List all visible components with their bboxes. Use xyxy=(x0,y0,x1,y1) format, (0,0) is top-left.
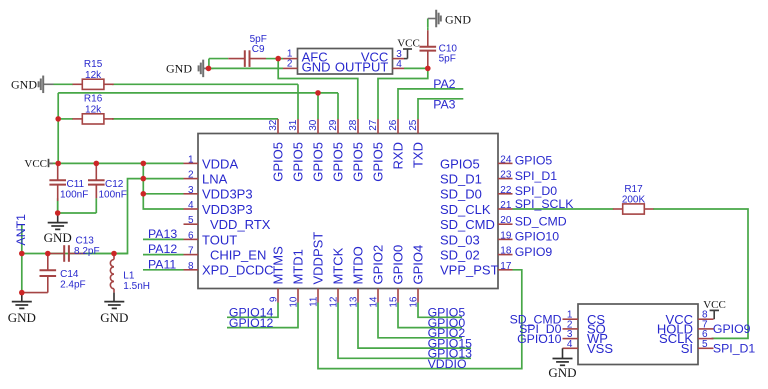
svg-text:GND: GND xyxy=(445,13,471,27)
wire PA12 to pin7 xyxy=(143,254,184,256)
svg-text:GPIO0: GPIO0 xyxy=(391,245,406,285)
svg-text:GND: GND xyxy=(166,62,192,76)
ground below antenna C14 xyxy=(21,293,23,302)
svg-text:PA13: PA13 xyxy=(148,227,177,241)
pin 2 LNA xyxy=(184,178,199,180)
resistor R17 xyxy=(613,208,623,210)
resistor R15 xyxy=(73,83,83,85)
svg-text:23: 23 xyxy=(500,170,512,181)
capacitor C10 xyxy=(427,27,429,30)
svg-text:GPIO4: GPIO4 xyxy=(411,245,426,285)
svg-text:VDDA: VDDA xyxy=(202,156,238,171)
pin 11 VDDPST bottom xyxy=(317,289,319,303)
svg-text:20: 20 xyxy=(500,215,512,226)
svg-text:GPIO9: GPIO9 xyxy=(713,322,751,336)
svg-text:GPIO9: GPIO9 xyxy=(515,245,553,259)
pin 27 GPIO5 top xyxy=(377,119,379,134)
svg-text:ANT1: ANT1 xyxy=(14,214,28,246)
svg-text:GND: GND xyxy=(548,365,576,380)
svg-text:SD_02: SD_02 xyxy=(440,248,480,263)
svg-text:2.4pF: 2.4pF xyxy=(60,280,86,291)
svg-text:GPIO10: GPIO10 xyxy=(517,332,562,346)
svg-text:PA2: PA2 xyxy=(433,77,455,91)
svg-text:GPIO5: GPIO5 xyxy=(371,142,386,182)
wire pin14 GPIO2 xyxy=(378,303,462,338)
svg-text:SD_CMD: SD_CMD xyxy=(440,217,495,232)
svg-text:4: 4 xyxy=(567,339,573,350)
pin 22 SD_D0 right xyxy=(498,193,513,195)
resistor R16 xyxy=(73,118,83,120)
svg-text:21: 21 xyxy=(500,200,512,211)
svg-text:GND: GND xyxy=(302,59,331,74)
wire R17 to flash SCLK xyxy=(653,209,748,338)
svg-text:SD_CLK: SD_CLK xyxy=(440,202,491,217)
svg-text:5: 5 xyxy=(702,339,708,350)
main IC U1 body xyxy=(198,134,498,289)
svg-text:5pF: 5pF xyxy=(439,54,456,65)
net label PA3 wire xyxy=(418,99,463,119)
svg-text:SD_CMD: SD_CMD xyxy=(515,214,567,228)
flash IC U2 body xyxy=(578,304,698,365)
svg-text:6: 6 xyxy=(188,230,194,241)
pin 21 SD_CLK right xyxy=(498,208,513,210)
pin 19 SD_03 right xyxy=(498,238,513,240)
svg-text:SPI_D1: SPI_D1 xyxy=(713,342,756,356)
svg-text:TOUT: TOUT xyxy=(202,232,237,247)
svg-text:SD_03: SD_03 xyxy=(440,232,480,247)
wire pin3 VDD3P3 xyxy=(143,193,183,195)
svg-text:MTMS: MTMS xyxy=(271,246,286,285)
svg-text:VDD3P3: VDD3P3 xyxy=(202,187,253,202)
pin 15 GPIO0 bottom xyxy=(397,289,399,303)
svg-text:OUTPUT: OUTPUT xyxy=(335,59,389,74)
svg-text:SPI_D1: SPI_D1 xyxy=(515,169,558,183)
svg-text:GPIO5: GPIO5 xyxy=(351,142,366,182)
net flag VCC at oscillator pin3 xyxy=(404,58,408,60)
pin 32 GPIO5 top xyxy=(277,119,279,134)
svg-text:SI: SI xyxy=(681,341,693,356)
svg-text:1: 1 xyxy=(188,154,194,165)
svg-text:22: 22 xyxy=(500,185,512,196)
wire pin13 GPIO15 xyxy=(358,303,471,349)
svg-text:VDD3P3: VDD3P3 xyxy=(202,202,253,217)
svg-text:GND: GND xyxy=(100,310,128,325)
svg-text:MTDO: MTDO xyxy=(351,246,366,284)
svg-text:R15: R15 xyxy=(84,59,103,70)
svg-text:GPIO5: GPIO5 xyxy=(311,142,326,182)
svg-text:GPIO5: GPIO5 xyxy=(291,142,306,182)
svg-text:GPIO5: GPIO5 xyxy=(331,142,346,182)
svg-text:TXD: TXD xyxy=(411,142,426,168)
capacitor C13 xyxy=(48,253,64,255)
pin 13 MTDO bottom xyxy=(357,289,359,303)
pin 14 GPIO2 bottom xyxy=(377,289,379,303)
svg-text:VSS: VSS xyxy=(587,341,613,356)
wire pin9 GPIO14 xyxy=(227,303,278,318)
pin 24 GPIO5 right xyxy=(498,162,513,164)
svg-text:VCC: VCC xyxy=(24,158,47,170)
pin 16 GPIO4 bottom xyxy=(417,289,419,303)
svg-text:GPIO10: GPIO10 xyxy=(515,230,560,244)
pin 17 VPP_PST right xyxy=(498,269,513,271)
oscillator box U3 xyxy=(298,49,393,75)
pin 26 RXD top xyxy=(397,119,399,134)
capacitor C11 xyxy=(57,162,59,164)
wire SPI_SCLK pin21 to R17 xyxy=(513,208,614,210)
svg-text:MTCK: MTCK xyxy=(331,247,346,284)
wire PA13 to pin6 xyxy=(143,238,184,240)
pin 1 VDDA xyxy=(184,162,199,164)
wire LNA pin2 to antenna xyxy=(114,179,184,254)
svg-text:LNA: LNA xyxy=(202,172,228,187)
flash pin 6 SCLK xyxy=(698,338,714,340)
pin 1 stub AFC xyxy=(283,58,298,60)
svg-text:RXD: RXD xyxy=(391,142,406,169)
svg-text:2: 2 xyxy=(188,170,194,181)
svg-text:30: 30 xyxy=(308,119,319,131)
pin 28 GPIO5 top xyxy=(357,119,359,134)
wire pin16 GPIO5 xyxy=(418,303,462,318)
svg-text:27: 27 xyxy=(368,119,379,131)
wire C11 bottom join xyxy=(57,198,59,213)
ground below L1 xyxy=(113,293,115,302)
svg-text:4: 4 xyxy=(188,200,194,211)
svg-text:SPI_SCLK: SPI_SCLK xyxy=(515,197,575,211)
wire vertical branch x58 xyxy=(57,93,59,163)
capacitor C14 xyxy=(47,253,49,255)
svg-text:PA3: PA3 xyxy=(433,97,455,111)
flash pin 1 CS xyxy=(563,318,579,320)
pin 3 stub VCC xyxy=(393,58,405,60)
svg-text:19: 19 xyxy=(500,230,512,241)
svg-text:28: 28 xyxy=(348,119,359,131)
svg-text:C14: C14 xyxy=(60,269,79,280)
wire antenna row xyxy=(22,253,128,255)
svg-text:GND: GND xyxy=(8,310,36,325)
svg-text:100nF: 100nF xyxy=(60,189,88,200)
ground at flash VSS xyxy=(562,348,564,358)
junction dots overlay xyxy=(315,90,321,96)
pin 8 XPD_DCDC xyxy=(184,269,199,271)
svg-text:XPD_DCDC: XPD_DCDC xyxy=(202,263,274,278)
svg-text:3: 3 xyxy=(188,185,194,196)
ground below C11/C12 xyxy=(57,213,59,223)
wire C10 top to GND flag xyxy=(428,18,436,20)
svg-text:SPI_D0: SPI_D0 xyxy=(515,184,558,198)
inductor L1 xyxy=(113,254,115,260)
svg-text:VDD_RTX: VDD_RTX xyxy=(210,217,271,232)
svg-text:200K: 200K xyxy=(622,195,646,206)
svg-text:R16: R16 xyxy=(84,94,103,105)
svg-text:CHIP_EN: CHIP_EN xyxy=(210,248,266,263)
pin 25 TXD top xyxy=(417,119,419,134)
svg-text:VPP_PST: VPP_PST xyxy=(440,263,499,278)
flash pin 2 SO xyxy=(563,328,579,330)
wire OUTPUT net to pin 27 xyxy=(378,68,428,119)
wire PA11 to pin8 xyxy=(143,269,184,271)
wire C9 left to gnd node xyxy=(208,59,210,69)
net flag GND at C9 xyxy=(204,67,208,69)
svg-text:4: 4 xyxy=(396,59,402,70)
pin 23 SD_D1 right xyxy=(498,178,513,180)
svg-text:GPIO2: GPIO2 xyxy=(371,245,386,285)
svg-text:12k: 12k xyxy=(85,104,102,115)
pin 4 VDD3P3 xyxy=(184,208,199,210)
svg-text:PA12: PA12 xyxy=(148,242,177,256)
svg-text:1.5nH: 1.5nH xyxy=(123,281,150,292)
pin 9 MTMS bottom xyxy=(277,289,279,303)
wire pins 29-30 to VCC branch xyxy=(58,92,338,94)
pin 31 GPIO5 top xyxy=(297,119,299,134)
wire R16 net to pin 32 xyxy=(112,118,278,120)
wire pin12 GPIO13 xyxy=(338,303,471,359)
pin 10 MTD1 bottom xyxy=(297,289,299,303)
svg-text:18: 18 xyxy=(500,246,512,257)
capacitor C9 xyxy=(209,58,228,60)
svg-text:L1: L1 xyxy=(123,271,135,282)
pin 2 stub GND xyxy=(283,67,298,69)
wire VCC row to pin 1 xyxy=(50,162,184,164)
pin 30 GPIO5 top xyxy=(317,119,319,134)
svg-text:7: 7 xyxy=(188,246,194,257)
pin 6 TOUT xyxy=(184,238,199,240)
capacitor C12 xyxy=(95,162,97,164)
svg-text:26: 26 xyxy=(388,119,399,131)
wire C9 right to pin1 xyxy=(278,58,283,60)
svg-text:32: 32 xyxy=(268,119,279,131)
pin 18 SD_02 right xyxy=(498,254,513,256)
svg-text:SD_D0: SD_D0 xyxy=(440,187,482,202)
net flag GND top-right xyxy=(435,10,437,28)
svg-text:GND: GND xyxy=(44,230,72,245)
pin 7 CHIP_EN xyxy=(184,254,199,256)
flash pin 3 WP xyxy=(563,338,579,340)
wire antenna vertical xyxy=(21,224,23,293)
svg-text:17: 17 xyxy=(500,261,512,272)
wire pin15 GPIO0 xyxy=(398,303,462,328)
svg-text:8: 8 xyxy=(188,261,194,272)
pin 12 MTCK bottom xyxy=(337,289,339,303)
wire pin4 VDD3P3 xyxy=(143,163,183,209)
pin 20 SD_CMD right xyxy=(498,223,513,225)
svg-text:GPIO5: GPIO5 xyxy=(440,156,480,171)
wire R15 net: GND to pin 31 xyxy=(54,83,74,85)
svg-text:VCC: VCC xyxy=(397,37,420,49)
svg-text:5: 5 xyxy=(188,215,194,226)
svg-text:GPIO12: GPIO12 xyxy=(229,316,274,330)
svg-text:8.2pF: 8.2pF xyxy=(74,246,100,257)
svg-text:SD_D1: SD_D1 xyxy=(440,172,482,187)
svg-text:GND: GND xyxy=(11,77,37,91)
svg-text:12k: 12k xyxy=(85,70,102,81)
svg-text:VDDPST: VDDPST xyxy=(311,232,326,285)
svg-text:31: 31 xyxy=(288,119,299,131)
svg-text:C9: C9 xyxy=(252,44,265,55)
svg-text:24: 24 xyxy=(500,154,512,165)
pin 3 VDD3P3 xyxy=(184,193,199,195)
svg-text:MTD1: MTD1 xyxy=(291,249,306,284)
wire gnd node to oscillator pin 2 xyxy=(209,67,284,69)
svg-text:100nF: 100nF xyxy=(99,189,127,200)
svg-text:9: 9 xyxy=(268,296,279,302)
flash pin 5 SI xyxy=(698,347,714,349)
svg-text:GPIO5: GPIO5 xyxy=(271,142,286,182)
wire pin10 GPIO12 xyxy=(227,303,298,328)
svg-text:GPIO5: GPIO5 xyxy=(515,154,553,168)
pin 29 GPIO5 top xyxy=(337,119,339,134)
flash pin 4 VSS xyxy=(563,347,579,349)
pin 5 VDD_RTX xyxy=(184,223,199,225)
net flag VCC at flash pin8 xyxy=(713,310,715,319)
svg-text:VCC: VCC xyxy=(703,299,726,311)
flash pin 8 VCC xyxy=(698,318,714,320)
svg-text:PA11: PA11 xyxy=(148,257,176,271)
net label PA2 wire xyxy=(398,89,463,119)
svg-text:2: 2 xyxy=(287,58,293,69)
svg-text:29: 29 xyxy=(328,119,339,131)
flash pin 7 HOLD xyxy=(698,328,714,330)
svg-text:GPIO13: GPIO13 xyxy=(428,347,473,361)
wire AFC net down to pin 28 xyxy=(278,59,358,119)
svg-text:R17: R17 xyxy=(624,184,643,195)
pin 4 stub OUTPUT xyxy=(393,67,405,69)
wire VPP_PST pin17 down to VDDIO row xyxy=(318,270,522,369)
svg-text:25: 25 xyxy=(408,119,419,131)
wire OUTPUT to C10 xyxy=(404,67,428,69)
